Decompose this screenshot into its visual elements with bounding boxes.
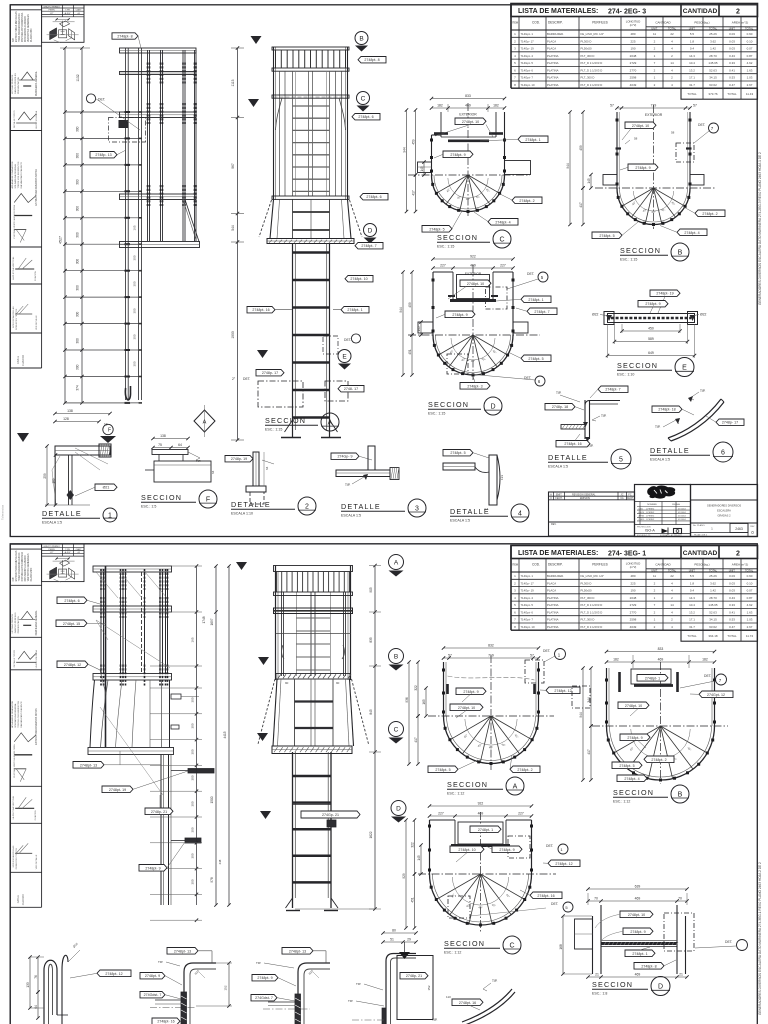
svg-text:274- 2EG- 3: 274- 2EG- 3 (608, 8, 646, 15)
radial spokes (614, 726, 661, 753)
svg-text:GALVANIZADO CALIENTE: GALVANIZADO CALIENTE (20, 701, 23, 728)
svg-text:CABLE: CABLE (17, 895, 20, 904)
svg-text:0.4: 0.4 (690, 47, 695, 51)
page2 seccion C view (402, 802, 580, 955)
svg-text:01/10/04: 01/10/04 (678, 512, 687, 514)
svg-text:2.67: 2.67 (747, 83, 753, 87)
svg-text:B: B (394, 653, 398, 660)
svg-text:31.7: 31.7 (689, 625, 695, 629)
svg-text:2748pt- 19: 2748pt- 19 (109, 788, 126, 792)
svg-text:FE_LISO_RD. 1/2": FE_LISO_RD. 1/2" (581, 574, 605, 578)
svg-text:3.62: 3.62 (710, 39, 716, 43)
svg-text:TODA SOLDADURA E60XX: TODA SOLDADURA E60XX (18, 13, 21, 42)
svg-text:DESCRIP.: DESCRIP. (548, 21, 563, 25)
svg-text:469: 469 (635, 973, 641, 977)
svg-text:SOLDADURA GENERAL: SOLDADURA GENERAL (14, 163, 17, 188)
svg-text:JC: JC (621, 493, 624, 496)
svg-text:PLACA: PLACA (547, 47, 556, 51)
svg-text:714Gpt- 6: 714Gpt- 6 (521, 610, 534, 614)
svg-text:1/2": 1/2" (50, 552, 54, 554)
svg-text:B: B (359, 35, 363, 42)
svg-text:D: D (396, 805, 401, 812)
svg-text:128: 128 (63, 417, 69, 421)
svg-text:PERFILERIA GENERAL: PERFILERIA GENERAL (35, 610, 38, 636)
svg-text:300: 300 (133, 334, 137, 339)
svg-text:TODOS LOS ELEMENTOS: TODOS LOS ELEMENTOS (18, 700, 20, 727)
svg-text:PERFILERIA GENERAL: PERFILERIA GENERAL (35, 70, 38, 96)
svg-text:A: A (550, 492, 552, 496)
svg-text:DET.: DET. (344, 338, 351, 342)
svg-text:322: 322 (410, 842, 414, 848)
page2 seccion A callouts (456, 688, 486, 695)
svg-text:2770: 2770 (630, 610, 637, 614)
svg-text:459: 459 (579, 145, 583, 151)
svg-text:2748pt- 5: 2748pt- 5 (450, 451, 465, 455)
detalle 4 view (443, 450, 529, 523)
svg-text:CUADRO: CUADRO (22, 355, 25, 366)
svg-text:40°: 40° (471, 359, 475, 363)
svg-text:5.5: 5.5 (690, 574, 695, 578)
svg-text:152: 152 (427, 985, 431, 990)
svg-text:PLANO 2460: PLANO 2460 (30, 567, 33, 581)
svg-text:110: 110 (446, 995, 451, 999)
svg-text:225: 225 (630, 39, 635, 43)
svg-text:1.42: 1.42 (710, 47, 716, 51)
svg-text:2748p- 13: 2748p- 13 (95, 153, 111, 157)
svg-text:TOTAL: TOTAL (687, 634, 697, 638)
svg-text:ESCALA 1:5: ESCALA 1:5 (650, 458, 670, 462)
svg-text:63.62: 63.62 (709, 83, 717, 87)
page2 ladder1 callouts (57, 597, 87, 604)
svg-text:DETALLE: DETALLE (450, 507, 490, 516)
svg-text:2598: 2598 (630, 618, 637, 622)
svg-text:F: F (206, 496, 210, 503)
svg-text:168: 168 (559, 944, 563, 950)
svg-text:300: 300 (76, 259, 80, 265)
page2 seccion A view (405, 644, 580, 796)
svg-text:300: 300 (191, 723, 195, 728)
svg-text:417: 417 (579, 202, 583, 208)
svg-text:2748pt- 16: 2748pt- 16 (564, 442, 581, 446)
svg-text:TIP.: TIP. (432, 1018, 438, 1022)
svg-text:PLT_D 1:1/2X3 D: PLT_D 1:1/2X3 D (581, 68, 603, 72)
svg-text:DETALLE: DETALLE (650, 446, 690, 455)
svg-text:2748pt- 10: 2748pt- 10 (467, 282, 484, 286)
page2 section marker B (389, 649, 404, 664)
svg-text:PL300 D: PL300 D (581, 39, 592, 43)
svg-text:DETALLE TIPICO: DETALLE TIPICO (13, 650, 16, 668)
svg-text:2748pt- 2: 2748pt- 2 (519, 199, 534, 203)
svg-text:1900: 1900 (231, 331, 235, 339)
svg-text:2748p- 18: 2748p- 18 (552, 405, 568, 409)
svg-text:34.15: 34.15 (709, 618, 717, 622)
svg-text:DETALLE: DETALLE (341, 502, 381, 511)
svg-text:2748pt- 10: 2748pt- 10 (462, 120, 479, 124)
svg-text:FE_LISO_RD. 1/2": FE_LISO_RD. 1/2" (581, 32, 605, 36)
page2 detalle hook 3 (251, 948, 330, 1024)
page2 seccion D callouts (620, 911, 653, 918)
svg-text:ESC.: 1:12: ESC.: 1:12 (613, 800, 630, 804)
svg-text:ITEM: ITEM (512, 21, 518, 25)
svg-text:VER DETALLE: VER DETALLE (35, 315, 38, 330)
svg-text:64: 64 (178, 443, 182, 447)
svg-text:17.1: 17.1 (689, 76, 695, 80)
svg-text:FIJACION: FIJACION (34, 271, 37, 281)
svg-text:CABLE: CABLE (17, 355, 20, 364)
svg-text:182: 182 (493, 104, 499, 108)
svg-text:NOMBRE: NOMBRE (647, 504, 657, 506)
svg-text:TIP.: TIP. (556, 391, 562, 395)
svg-text:0.41: 0.41 (729, 68, 735, 72)
svg-text:2748pt- 1: 2748pt- 1 (645, 676, 660, 680)
svg-text:PERN: PERN (49, 549, 55, 551)
svg-text:182: 182 (437, 104, 443, 108)
svg-text:PLATINA: PLATINA (547, 625, 559, 629)
svg-text:PRESENTACION: PRESENTACION (17, 76, 20, 94)
svg-text:2748pt- 9: 2748pt- 9 (635, 166, 650, 170)
svg-text:2748pt- 16: 2748pt- 16 (537, 894, 554, 898)
svg-text:10.4: 10.4 (689, 603, 695, 607)
svg-text:70: 70 (678, 897, 682, 901)
svg-text:2748pt- 12: 2748pt- 12 (555, 862, 572, 866)
seccion F view (141, 434, 217, 509)
svg-text:01/10/04: 01/10/04 (678, 516, 687, 518)
svg-text:2748pt- 10: 2748pt- 10 (458, 848, 475, 852)
svg-text:PLT_300 D: PLT_300 D (581, 618, 595, 622)
svg-text:SECCION: SECCION (620, 246, 661, 255)
svg-text:DETALLE: DETALLE (231, 500, 271, 509)
svg-text:(m^2): (m^2) (630, 565, 637, 569)
svg-text:TIP.: TIP. (158, 960, 163, 964)
svg-text:714Gpt- 1: 714Gpt- 1 (521, 574, 534, 578)
svg-text:PESO (kg.): PESO (kg.) (694, 563, 709, 567)
svg-text:LISTA DE MATERIALES:: LISTA DE MATERIALES: (518, 8, 598, 15)
svg-text:90: 90 (336, 681, 340, 685)
svg-text:2748pt- 10: 2748pt- 10 (458, 706, 475, 710)
page2 seccion C callouts (470, 826, 501, 833)
svg-text:2729: 2729 (630, 603, 637, 607)
materials list table (511, 4, 758, 100)
svg-text:J.PEREZ: J.PEREZ (646, 508, 655, 510)
svg-text:ESCALA 1:5: ESCALA 1:5 (450, 519, 470, 523)
svg-text:0.43: 0.43 (729, 596, 735, 600)
svg-text:417: 417 (411, 190, 415, 196)
svg-text:25.26: 25.26 (709, 32, 717, 36)
DET markers p2 C (558, 844, 568, 854)
svg-text:DET.: DET. (546, 844, 553, 848)
marker A diamond (194, 405, 215, 437)
svg-text:PLT_300 D: PLT_300 D (581, 54, 595, 58)
svg-text:922: 922 (470, 255, 476, 259)
svg-text:1.63: 1.63 (747, 610, 753, 614)
svg-text:SECCION: SECCION (437, 233, 478, 242)
svg-text:PLATINA: PLATINA (547, 603, 559, 607)
svg-text:544: 544 (231, 225, 235, 231)
svg-text:459: 459 (408, 302, 412, 308)
svg-text:300: 300 (75, 285, 79, 291)
svg-text:714Gp- 17: 714Gp- 17 (521, 39, 535, 43)
svg-text:EMISION: EMISION (580, 497, 590, 500)
svg-text:DIBJ: DIBJ (639, 508, 643, 510)
svg-text:PINTURA ANTICORROSIVA: PINTURA ANTICORROSIVA (21, 552, 24, 582)
svg-text:936: 936 (405, 697, 409, 703)
svg-text:(m^2): (m^2) (630, 23, 637, 27)
svg-text:FIJACION: FIJACION (34, 810, 37, 820)
svg-text:2748pt- 1: 2748pt- 1 (632, 952, 647, 956)
svg-text:1.63: 1.63 (747, 68, 753, 72)
svg-text:PLT_D 1:1/2X3 D: PLT_D 1:1/2X3 D (581, 603, 603, 607)
svg-text:835: 835 (369, 637, 373, 643)
svg-text:2463: 2463 (735, 527, 743, 531)
svg-text:PL50x50: PL50x50 (581, 47, 592, 51)
svg-text:CANT: CANT (76, 548, 83, 551)
svg-text:PERN: PERN (49, 10, 55, 12)
svg-text:5.5: 5.5 (690, 32, 695, 36)
svg-text:714Gpt- 5: 714Gpt- 5 (521, 603, 534, 607)
svg-text:2748pt- 15: 2748pt- 15 (63, 622, 80, 626)
svg-text:2748pt- 9: 2748pt- 9 (463, 690, 478, 694)
DET 3 marker (351, 334, 360, 343)
svg-text:2748pt- 10: 2748pt- 10 (625, 704, 642, 708)
radial spokes (438, 335, 473, 355)
svg-text:D: D (490, 403, 495, 410)
svg-text:ESTRUCTURA DIVERSOS NOTAS: ESTRUCTURA DIVERSOS NOTAS (35, 169, 38, 206)
svg-text:929: 929 (402, 873, 406, 879)
page2 detalle hook 2 (140, 948, 232, 1024)
svg-text:138: 138 (160, 434, 166, 438)
svg-text:714Gp- 19: 714Gp- 19 (521, 589, 535, 593)
svg-text:SECCION: SECCION (592, 980, 633, 989)
svg-text:1622: 1622 (369, 831, 373, 838)
svg-text:C: C (499, 236, 504, 243)
svg-text:NOR ESCALERILLAS: NOR ESCALERILLAS (12, 306, 15, 328)
svg-text:714Gp- 17: 714Gp- 17 (521, 581, 535, 585)
svg-text:259: 259 (43, 473, 47, 479)
svg-text:PL300 D: PL300 D (581, 581, 592, 585)
svg-text:0.03: 0.03 (729, 47, 735, 51)
svg-text:3.62: 3.62 (710, 581, 716, 585)
svg-text:322: 322 (414, 685, 418, 691)
svg-text:2748pt- 12: 2748pt- 12 (64, 663, 81, 667)
svg-text:300: 300 (191, 775, 195, 780)
svg-text:451: 451 (408, 349, 412, 355)
svg-text:PLT_D 1:1/2X3 D: PLT_D 1:1/2X3 D (581, 625, 603, 629)
svg-text:FORMATO: A1-594x841: FORMATO: A1-594x841 (660, 534, 682, 537)
svg-text:TOTAL: TOTAL (709, 27, 718, 31)
svg-text:28.70: 28.70 (709, 54, 717, 58)
svg-text:CANTIDAD: CANTIDAD (655, 21, 671, 25)
svg-text:SECCION: SECCION (265, 416, 306, 425)
page2 seccion B view (572, 647, 733, 804)
svg-text:UNIT.: UNIT. (651, 27, 658, 31)
DET marker p2 B (716, 674, 727, 685)
svg-text:2748- 17: 2748- 17 (344, 387, 358, 391)
svg-text:190: 190 (630, 47, 635, 51)
svg-text:922: 922 (478, 802, 484, 806)
svg-text:C: C (509, 942, 514, 949)
svg-text:TIP.: TIP. (700, 389, 706, 393)
company logo blob (647, 486, 675, 499)
svg-text:2748pt- 1: 2748pt- 1 (528, 298, 543, 302)
svg-text:CUADRO: CUADRO (22, 894, 25, 905)
svg-text:14: 14 (670, 603, 674, 607)
svg-text:T.PE: T.PE (65, 10, 70, 12)
svg-text:2748pt- 12: 2748pt- 12 (554, 689, 571, 693)
svg-text:0.87: 0.87 (747, 596, 753, 600)
svg-text:2748pt- 7: 2748pt- 7 (361, 244, 376, 248)
svg-text:4.62: 4.62 (747, 61, 753, 65)
svg-text:REV.: REV. (551, 523, 557, 526)
svg-text:DET.: DET. (527, 272, 534, 276)
cage bar cross-section beads (430, 886, 433, 889)
left notes strip (10, 544, 41, 1024)
page2 ladder 1 side elevation (56, 564, 231, 922)
svg-text:2748p- 19: 2748p- 19 (231, 457, 247, 461)
svg-text:EMIT.: EMIT. (556, 493, 562, 496)
svg-text:PLT_D 1:1/2X3 D: PLT_D 1:1/2X3 D (581, 83, 603, 87)
svg-text:2598: 2598 (630, 76, 637, 80)
svg-text:182: 182 (613, 658, 619, 662)
callout flag ladder1 top (112, 33, 138, 39)
svg-text:11: 11 (653, 574, 656, 578)
svg-text:227: 227 (500, 264, 506, 268)
svg-text:714Gp- 19: 714Gp- 19 (521, 47, 535, 51)
svg-text:76: 76 (34, 975, 38, 979)
svg-text:248: 248 (218, 859, 222, 864)
svg-text:DOS MANOS ACABADO: DOS MANOS ACABADO (24, 16, 27, 42)
svg-text:145: 145 (417, 855, 421, 861)
svg-text:364.18: 364.18 (708, 634, 718, 638)
svg-text:58: 58 (671, 131, 675, 135)
svg-text:0.10: 0.10 (747, 581, 753, 585)
svg-text:2748pt- 10: 2748pt- 10 (628, 913, 645, 917)
svg-text:TIP.: TIP. (256, 961, 261, 965)
svg-text:DOBLECES TIPICOS: DOBLECES TIPICOS (16, 848, 18, 870)
svg-text:DET.: DET. (698, 123, 705, 127)
svg-text:01/10/04: 01/10/04 (678, 508, 687, 510)
svg-text:832: 832 (488, 644, 494, 648)
svg-text:1.8: 1.8 (690, 581, 695, 585)
svg-text:2748pt- 2: 2748pt- 2 (517, 768, 532, 772)
svg-text:0.53: 0.53 (729, 76, 735, 80)
svg-text:REVS: REVS (639, 512, 645, 514)
svg-text:J.PEREZ: J.PEREZ (646, 512, 655, 514)
seccion B view (566, 104, 725, 262)
svg-text:HOJA 1 DE 2: HOJA 1 DE 2 (694, 534, 708, 537)
svg-text:APLANARSE GRADACION: APLANARSE GRADACION (11, 700, 14, 727)
svg-text:2748pt- 13: 2748pt- 13 (289, 949, 306, 953)
svg-text:B: B (678, 791, 683, 798)
svg-text:64: 64 (265, 466, 269, 470)
svg-text:PINTURA ANTICORROSIVA: PINTURA ANTICORROSIVA (21, 12, 24, 42)
svg-text:TOTAL: TOTAL (709, 569, 718, 573)
svg-text:A-307: A-307 (65, 551, 72, 554)
svg-text:N.B: N.B (13, 577, 15, 581)
svg-text:2048: 2048 (630, 54, 637, 58)
svg-text:145: 145 (587, 178, 591, 184)
svg-text:ESCALA 1:15: ESCALA 1:15 (637, 534, 651, 537)
svg-text:1115: 1115 (231, 79, 235, 86)
svg-text:152: 152 (224, 985, 228, 990)
svg-text:649: 649 (648, 351, 654, 355)
svg-text:PLATINA: PLATINA (547, 83, 559, 87)
svg-text:PLACA: PLACA (547, 589, 556, 593)
svg-text:PLT_300 D: PLT_300 D (581, 596, 595, 600)
svg-text:0.10: 0.10 (747, 39, 753, 43)
svg-text:1/2": 1/2" (50, 13, 54, 15)
svg-text:PLETINAS VERTICALES EN OBRA: PLETINAS VERTICALES EN OBRA (13, 744, 16, 778)
svg-text:905: 905 (369, 587, 373, 593)
svg-text:ESCALA 1:5: ESCALA 1:5 (548, 465, 568, 469)
svg-text:639: 639 (635, 885, 641, 889)
page2 section marker D (391, 801, 406, 816)
svg-text:DET.: DET. (243, 377, 250, 381)
svg-text:589: 589 (648, 337, 654, 341)
svg-text:LA PLETINA VERTICAL: LA PLETINA VERTICAL (12, 256, 15, 280)
svg-text:PLATINA: PLATINA (547, 610, 559, 614)
svg-text:2748pt- 12: 2748pt- 12 (105, 972, 122, 976)
svg-text:ESC.: 1:12: ESC.: 1:12 (447, 792, 464, 796)
svg-text:0.03: 0.03 (729, 589, 735, 593)
svg-text:GRUPO PERNO: GRUPO PERNO (43, 7, 60, 9)
callout flags ladder 2 (358, 57, 386, 63)
svg-text:SECCION: SECCION (444, 939, 485, 948)
svg-text:165: 165 (191, 637, 195, 642)
page2 seccion B callouts (637, 675, 668, 682)
page2 detalle hook 1 U-bend (26, 942, 131, 1024)
svg-text:34.15: 34.15 (709, 76, 717, 80)
svg-text:300: 300 (76, 364, 80, 370)
svg-text:0.03: 0.03 (729, 581, 735, 585)
svg-text:GRUPO PERNO: GRUPO PERNO (43, 546, 60, 548)
svg-text:FECH: FECH (627, 497, 634, 500)
svg-text:2770: 2770 (630, 68, 637, 72)
svg-text:ESCALA 1:5: ESCALA 1:5 (341, 514, 361, 518)
svg-text:21: 21 (595, 973, 599, 977)
svg-text:469: 469 (635, 897, 641, 901)
svg-text:14.3: 14.3 (689, 596, 695, 600)
svg-text:2748pt- 9: 2748pt- 9 (452, 313, 467, 317)
svg-text:APRB: APRB (639, 515, 645, 518)
svg-text:FC: FC (628, 493, 631, 496)
DET 6 marker at seccion D (535, 376, 545, 386)
svg-text:373.76: 373.76 (708, 92, 718, 96)
svg-text:ESC.: 1:15: ESC.: 1:15 (265, 428, 282, 432)
svg-text:CANTIDAD: CANTIDAD (655, 563, 671, 567)
svg-text:57: 57 (448, 654, 452, 658)
svg-text:0.33: 0.33 (729, 61, 735, 65)
svg-text:ESC.: 1:15: ESC.: 1:15 (428, 412, 445, 416)
svg-text:451: 451 (410, 897, 414, 903)
svg-text:80: 80 (392, 929, 396, 933)
svg-text:UNIT.: UNIT. (689, 569, 696, 573)
svg-text:CA: CA (620, 497, 624, 500)
svg-text:GRADAS 2: GRADAS 2 (717, 514, 731, 518)
svg-text:TOTAL: TOTAL (745, 569, 754, 573)
svg-text:22: 22 (670, 32, 674, 36)
svg-text:A: A (513, 783, 518, 790)
svg-text:0.43: 0.43 (729, 54, 735, 58)
svg-text:TIP.: TIP. (196, 459, 201, 463)
svg-text:13.2: 13.2 (689, 610, 695, 614)
DET 5 marker at seccion D (538, 272, 548, 282)
svg-text:165: 165 (133, 225, 137, 230)
svg-text:DET.: DET. (725, 940, 732, 944)
cage bar cross-section beads (433, 344, 436, 347)
svg-text:DESCRIP.: DESCRIP. (548, 563, 563, 567)
svg-text:51: 51 (390, 938, 394, 942)
svg-text:4415: 4415 (223, 731, 227, 738)
